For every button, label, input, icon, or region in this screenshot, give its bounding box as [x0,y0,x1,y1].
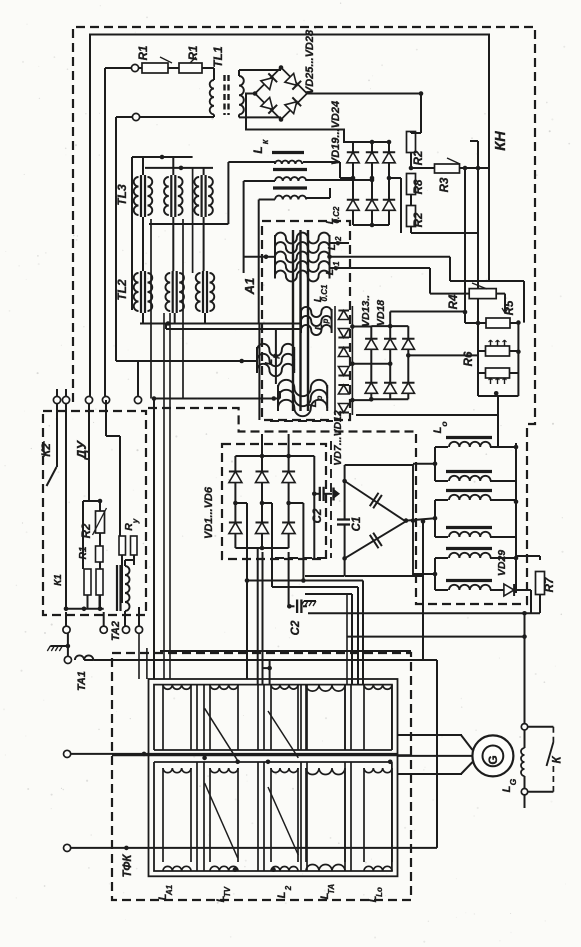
svg-text:ч1: ч1 [332,261,341,271]
svg-text:R1: R1 [188,46,200,61]
svg-text:р: р [321,318,330,324]
svg-text:L: L [263,359,275,365]
svg-text:TA1: TA1 [76,671,88,691]
svg-text:TA2: TA2 [110,621,122,641]
svg-text:VD13..: VD13.. [360,295,372,327]
svg-text:ТV: ТV [223,886,232,897]
svg-text:G: G [486,755,500,764]
svg-text:ТА: ТА [327,884,336,895]
svg-text:R4: R4 [448,294,460,309]
svg-text:L: L [501,785,513,792]
svg-text:L: L [276,891,288,898]
svg-text:ТФК: ТФК [122,854,134,878]
svg-text:R2: R2 [413,212,425,227]
svg-text:0.C1: 0.C1 [320,284,329,301]
svg-text:R7: R7 [544,577,556,592]
svg-text:C2: C2 [290,620,302,635]
svg-text:VD19...VD24: VD19...VD24 [330,101,342,165]
svg-text:TL2: TL2 [115,279,129,301]
svg-text:К1: К1 [53,574,64,586]
svg-text:А1: А1 [165,884,174,896]
svg-text:R6: R6 [463,351,475,366]
svg-text:R2: R2 [413,150,425,165]
svg-text:К2: К2 [41,443,53,457]
svg-text:К: К [552,756,564,764]
svg-text:VD29: VD29 [496,550,508,576]
svg-text:А1: А1 [242,278,257,296]
svg-text:0.C2: 0.C2 [332,206,341,223]
svg-text:L: L [307,401,319,407]
svg-text:R5: R5 [504,300,516,315]
svg-text:VD1...VD6: VD1...VD6 [203,486,215,539]
svg-text:G: G [508,778,518,785]
svg-text:VD25...VD28: VD25...VD28 [304,29,316,94]
svg-text:ДУ: ДУ [74,440,89,460]
svg-text:TL3: TL3 [115,184,129,206]
svg-text:C2: C2 [312,508,324,523]
svg-text:Lо: Lо [375,887,384,897]
svg-text:R8: R8 [413,179,425,194]
svg-text:R1: R1 [138,46,150,61]
svg-text:КН: КН [493,131,509,151]
svg-text:о: о [439,421,449,426]
svg-text:VD7...VD12: VD7...VD12 [332,410,344,466]
svg-text:TL1: TL1 [211,46,225,68]
svg-text:2: 2 [284,885,293,891]
svg-text:L: L [313,324,325,330]
svg-text:р: р [271,353,280,359]
svg-text:ч2: ч2 [334,236,343,246]
svg-text:L: L [251,146,265,153]
svg-text:C1: C1 [351,517,363,532]
svg-text:у: у [131,518,140,524]
svg-text:р: р [315,395,324,401]
svg-text:R3: R3 [439,177,451,192]
svg-text:VD18: VD18 [375,300,387,326]
svg-text:к: к [260,139,270,144]
svg-text:R1: R1 [78,546,89,559]
